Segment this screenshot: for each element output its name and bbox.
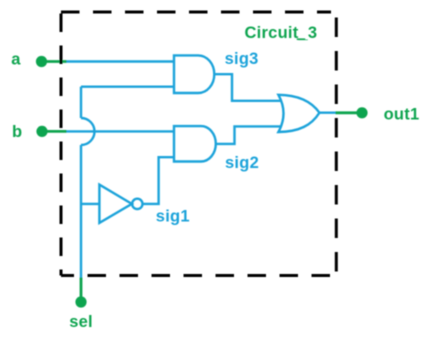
wire: port b stub (green) [42,130,67,133]
inverter U3 output bubble [132,199,142,209]
label Circuit_3 underscore mark [297,38,305,40]
module boundary (bottom edge) [61,274,336,277]
wire: sel net vertical (lower segment to border) [80,145,82,278]
port b terminal dot [36,126,47,137]
svg-text:sig2: sig2 [225,154,259,172]
wire: sig3 net from AND U1 to OR gate pin 1 [214,74,282,101]
port a terminal dot [36,56,47,67]
wire: port out1 stub (green) [336,111,363,114]
wire: sel net horizontal to AND gate sig3 pin 2 [81,85,174,87]
svg-text:Circuit_3: Circuit_3 [245,24,318,42]
wire: port sel stub (green) [80,278,83,303]
port sel terminal dot [75,296,86,307]
wire: OR gate output to border [319,111,335,113]
inverter U3 (sig1) triangle [99,185,131,223]
junction: sel net to inverter input [81,203,99,205]
wire: port a stub (green) [42,60,67,63]
svg-text:a: a [11,51,21,69]
module boundary Circuit_3 (dashed box, top edge) [61,11,331,14]
svg-text:sig1: sig1 [156,208,190,226]
svg-text:out1: out1 [384,105,420,123]
AND gate U1 (sig3) [174,55,214,93]
wire: input a to AND gate sig3 pin 1 [67,60,175,62]
wire: input b to AND gate sig2 pin 1 [67,130,175,132]
module boundary (right edge) [335,12,338,276]
module boundary (left edge) [60,12,63,276]
svg-text:sel: sel [69,313,93,331]
svg-text:b: b [12,123,22,141]
wire: sig1 net from bubble to AND gate sig2 pin 2 [143,157,175,204]
AND gate U2 (sig2) [174,126,216,161]
svg-text:sig3: sig3 [225,50,259,68]
wire: sig2 net from AND U2 to OR gate pin 2 [216,126,282,143]
port out1 terminal dot [356,107,367,118]
crossover hop: sel wire over b wire [81,118,95,145]
OR gate U4 (out1) [278,95,319,132]
wire: sel net vertical (upper segment) [80,87,82,118]
